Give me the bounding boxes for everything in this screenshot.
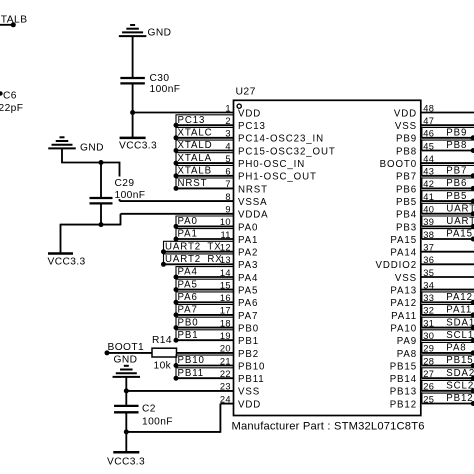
svg-text:PB13: PB13 bbox=[390, 387, 417, 398]
svg-text:PA6: PA6 bbox=[238, 298, 258, 309]
pin 42 PB6 (right) bbox=[396, 178, 474, 195]
svg-text:GND: GND bbox=[148, 27, 172, 38]
svg-text:100nF: 100nF bbox=[142, 417, 173, 428]
wire C2 bottom node to pin 24 VDD bbox=[126, 431, 220, 433]
svg-text:PA2: PA2 bbox=[238, 248, 258, 259]
ground GND (top, above C30) bbox=[119, 25, 171, 38]
pin 23 VSS (left) bbox=[220, 382, 260, 398]
svg-text:VSSA: VSSA bbox=[238, 197, 267, 208]
op: IC U27 STM32L071C8T6 body bbox=[234, 87, 421, 416]
pin 24 VDD (left) bbox=[220, 394, 261, 410]
svg-text:VSS: VSS bbox=[395, 273, 417, 284]
svg-text:UART1_RX: UART1_RX bbox=[446, 216, 474, 227]
wire VCC node to pin 1 VDD bbox=[133, 112, 234, 114]
wire GND3 down to pin23 node bbox=[125, 377, 127, 391]
node GND3/C2/pin23 junction bbox=[124, 388, 129, 393]
svg-text:C6: C6 bbox=[3, 91, 17, 102]
svg-text:PB15: PB15 bbox=[446, 355, 473, 366]
pin 6 PH1-OSC_OUT (left) bbox=[174, 165, 317, 182]
svg-text:PB1: PB1 bbox=[178, 330, 199, 341]
pin 33 PA12 (right) bbox=[390, 292, 474, 309]
capacitor C29 100nF bbox=[90, 163, 148, 225]
svg-text:PB15: PB15 bbox=[390, 361, 417, 372]
resistor R14 10k bbox=[152, 335, 177, 372]
svg-text:NRST: NRST bbox=[238, 184, 268, 195]
svg-text:PB0: PB0 bbox=[178, 317, 199, 328]
pin 25 PB12 (right) bbox=[390, 393, 474, 410]
svg-text:PB9: PB9 bbox=[396, 134, 417, 145]
svg-text:PC14-OSC23_IN: PC14-OSC23_IN bbox=[238, 134, 324, 145]
svg-text:PB0: PB0 bbox=[238, 324, 259, 335]
svg-text:PB9: PB9 bbox=[446, 128, 467, 139]
node C2 bottom / VCC junction bbox=[124, 429, 129, 434]
power VCC3.3 (bottom) bbox=[107, 452, 145, 467]
svg-text:PB5: PB5 bbox=[446, 191, 467, 202]
svg-text:PA4: PA4 bbox=[178, 267, 198, 278]
svg-text:VSS: VSS bbox=[395, 121, 417, 132]
svg-text:1: 1 bbox=[225, 103, 230, 113]
svg-text:PA0: PA0 bbox=[238, 222, 258, 233]
svg-text:GND: GND bbox=[114, 354, 138, 365]
svg-text:100nF: 100nF bbox=[150, 84, 181, 95]
capacitor C6 value labels (cropped at left edge) bbox=[0, 91, 23, 115]
wire GND to C30 top bbox=[132, 36, 134, 77]
svg-text:PB12: PB12 bbox=[446, 393, 473, 404]
svg-text:XTALD: XTALD bbox=[178, 140, 213, 151]
svg-text:PA9: PA9 bbox=[397, 336, 417, 347]
wire C29 bottom node to VCC3.3 (mid) bbox=[61, 224, 102, 226]
svg-text:UART2_TX: UART2_TX bbox=[165, 241, 222, 252]
svg-text:20: 20 bbox=[220, 344, 231, 354]
pin 17 PA7 (left) bbox=[174, 305, 259, 322]
svg-text:PB8: PB8 bbox=[396, 146, 417, 157]
node C29 bottom junction bbox=[99, 222, 104, 227]
svg-text:PA8: PA8 bbox=[397, 349, 417, 360]
svg-text:PB10: PB10 bbox=[178, 355, 205, 366]
wire C2 bottom node down to VCC3.3 bbox=[125, 432, 127, 452]
svg-text:PH1-OSC_OUT: PH1-OSC_OUT bbox=[238, 172, 317, 183]
svg-text:PA3: PA3 bbox=[238, 260, 258, 271]
svg-text:PA0: PA0 bbox=[178, 216, 198, 227]
svg-text:PB5: PB5 bbox=[396, 197, 417, 208]
pin 31 PA10 (right) bbox=[390, 317, 474, 334]
svg-text:SCL1: SCL1 bbox=[446, 330, 474, 341]
svg-text:24: 24 bbox=[220, 394, 231, 404]
svg-text:PB4: PB4 bbox=[396, 210, 417, 221]
pin 44 BOOT0 (right) bbox=[380, 154, 474, 170]
pin 28 PB15 (right) bbox=[390, 355, 474, 372]
svg-text:VCC3.3: VCC3.3 bbox=[48, 256, 86, 267]
pin 41 PB5 (right) bbox=[396, 191, 474, 208]
ground GND (mid-left, above C29) bbox=[48, 137, 104, 153]
svg-text:PA13: PA13 bbox=[390, 286, 417, 297]
svg-text:100nF: 100nF bbox=[115, 190, 146, 201]
svg-text:PA10: PA10 bbox=[390, 324, 417, 335]
pin 35 VSS (right) bbox=[395, 268, 474, 284]
svg-text:GND: GND bbox=[80, 143, 104, 154]
svg-text:PA7: PA7 bbox=[238, 311, 258, 322]
svg-text:PB7: PB7 bbox=[396, 172, 417, 183]
pin 10 PA0 (left) bbox=[174, 216, 259, 233]
svg-text:VDD: VDD bbox=[238, 108, 261, 119]
wire C30 bottom to VCC node bbox=[132, 85, 134, 113]
wire R14 to pin 20 PB2 bbox=[177, 352, 234, 354]
svg-text:PA1: PA1 bbox=[238, 235, 258, 246]
svg-text:VSS: VSS bbox=[238, 387, 260, 398]
pin 32 PA11 (right) bbox=[391, 305, 474, 322]
svg-text:PB3: PB3 bbox=[396, 222, 417, 233]
pin 8 VSSA (left) bbox=[225, 192, 267, 208]
svg-text:PB8: PB8 bbox=[446, 140, 467, 151]
svg-text:C30: C30 bbox=[150, 73, 170, 84]
pin 34 PA13 (right) bbox=[390, 280, 474, 296]
svg-text:VDD: VDD bbox=[238, 399, 261, 410]
pin 36 VDDIO2 (right) bbox=[376, 255, 474, 271]
svg-text:R14: R14 bbox=[152, 335, 172, 346]
pin 16 PA6 (left) bbox=[174, 292, 259, 309]
svg-text:PA15: PA15 bbox=[446, 229, 473, 240]
svg-text:PB10: PB10 bbox=[238, 361, 265, 372]
svg-text:9: 9 bbox=[225, 205, 230, 215]
pin 27 PB14 (right) bbox=[390, 368, 474, 385]
svg-text:C29: C29 bbox=[115, 178, 135, 189]
pin 22 PB11 (left) bbox=[174, 368, 265, 385]
wire C29 top node to pin 8 VSSA bbox=[119, 162, 121, 201]
capacitor C2 100nF bbox=[114, 391, 173, 432]
svg-text:PA7: PA7 bbox=[178, 305, 198, 316]
svg-text:PA5: PA5 bbox=[238, 286, 258, 297]
power VCC3.3 (mid-left) bbox=[48, 254, 86, 268]
pin 46 PB9 (right) bbox=[396, 127, 474, 144]
svg-text:SDA1: SDA1 bbox=[446, 317, 474, 328]
svg-text:PH0-OSC_IN: PH0-OSC_IN bbox=[238, 159, 305, 170]
svg-text:PB11: PB11 bbox=[178, 368, 205, 379]
svg-text:UART2_RX: UART2_RX bbox=[165, 254, 223, 265]
pin 3 PC14-OSC23_IN (left) bbox=[174, 127, 325, 144]
svg-text:C2: C2 bbox=[142, 404, 156, 415]
node C29 top junction bbox=[99, 160, 104, 165]
svg-text:PA11: PA11 bbox=[446, 305, 472, 316]
svg-text:XTALB: XTALB bbox=[178, 166, 212, 177]
pin 11 PA1 (left) bbox=[174, 229, 259, 246]
capacitor C30 100nF bbox=[120, 73, 180, 95]
svg-text:22pF: 22pF bbox=[0, 103, 23, 114]
svg-text:SDA2: SDA2 bbox=[446, 368, 474, 379]
svg-text:PB6: PB6 bbox=[446, 178, 467, 189]
svg-text:PB12: PB12 bbox=[390, 399, 417, 410]
pin 1 VDD (left) bbox=[225, 103, 261, 119]
pin 47 VSS (right) bbox=[395, 116, 474, 132]
node VCC3.3 / pin1 junction bbox=[130, 110, 135, 115]
svg-text:BOOT1: BOOT1 bbox=[108, 342, 145, 353]
wire VCC node down to VCC3.3 symbol bbox=[132, 113, 134, 138]
power VCC3.3 (top) bbox=[119, 138, 157, 151]
svg-text:23: 23 bbox=[220, 382, 231, 392]
svg-text:XTALC: XTALC bbox=[178, 128, 213, 139]
svg-text:PA8: PA8 bbox=[446, 343, 466, 354]
svg-text:NRST: NRST bbox=[178, 178, 208, 189]
svg-text:PA12: PA12 bbox=[446, 292, 473, 303]
svg-text:VCC3.3: VCC3.3 bbox=[107, 456, 145, 467]
svg-text:PC15-OSC32_OUT: PC15-OSC32_OUT bbox=[238, 146, 336, 157]
svg-text:PA12: PA12 bbox=[390, 298, 417, 309]
pin 2 PC13 (left) bbox=[174, 115, 266, 132]
svg-text:PC13: PC13 bbox=[238, 121, 266, 132]
pin 29 PA8 (right) bbox=[397, 343, 474, 360]
svg-text:XTALA: XTALA bbox=[178, 153, 212, 164]
pin 40 PB4 (right) bbox=[396, 203, 474, 220]
svg-text:PC13: PC13 bbox=[178, 115, 206, 126]
wire C29 bottom node to pin 9 VDDA bbox=[101, 224, 121, 226]
svg-text:8: 8 bbox=[225, 192, 230, 202]
pin 18 PB0 (left) bbox=[174, 317, 260, 334]
svg-text:PA14: PA14 bbox=[390, 248, 417, 259]
svg-text:VCC3.3: VCC3.3 bbox=[119, 140, 157, 151]
pin 20 PB2 (left) bbox=[220, 344, 259, 360]
pin 43 PB7 (right) bbox=[396, 165, 474, 182]
pin 9 VDDA (left) bbox=[225, 205, 268, 221]
svg-text:VDD: VDD bbox=[394, 108, 417, 119]
svg-text:PA1: PA1 bbox=[178, 229, 198, 240]
svg-text:PB6: PB6 bbox=[396, 184, 417, 195]
pin 5 PH0-OSC_IN (left) bbox=[174, 153, 306, 170]
pin 30 PA9 (right) bbox=[397, 330, 474, 347]
svg-text:PA15: PA15 bbox=[390, 235, 417, 246]
svg-text:PA11: PA11 bbox=[391, 311, 417, 322]
svg-text:BOOT0: BOOT0 bbox=[380, 159, 417, 170]
svg-text:VDDA: VDDA bbox=[238, 210, 269, 221]
svg-text:PB2: PB2 bbox=[238, 349, 259, 360]
svg-text:U27: U27 bbox=[236, 87, 256, 98]
pin 39 PB3 (right) bbox=[396, 216, 474, 233]
svg-text:PB1: PB1 bbox=[238, 336, 259, 347]
pin 26 PB13 (right) bbox=[390, 380, 474, 397]
pin 14 PA4 (left) bbox=[174, 267, 259, 284]
svg-text:PB14: PB14 bbox=[390, 374, 417, 385]
pin 7 NRST (left) bbox=[174, 178, 268, 195]
wire GND down and right to C29 top node bbox=[61, 148, 63, 162]
svg-text:Manufacturer Part : STM32L071C: Manufacturer Part : STM32L071C8T6 bbox=[232, 420, 425, 432]
pin 38 PA15 (right) bbox=[390, 229, 474, 246]
net label XTALB (cropped at left edge) bbox=[0, 14, 28, 27]
pin 15 PA5 (left) bbox=[174, 279, 259, 296]
pin 48 VDD (right) bbox=[394, 103, 474, 119]
pin 13 PA3 (left) bbox=[161, 254, 258, 271]
svg-text:PA6: PA6 bbox=[178, 292, 198, 303]
svg-text:PB11: PB11 bbox=[238, 374, 265, 385]
pin 21 PB10 (left) bbox=[174, 355, 266, 372]
svg-text:PB7: PB7 bbox=[446, 166, 467, 177]
wire node to pin 23 VSS bbox=[126, 390, 233, 392]
svg-text:UART1_TX: UART1_TX bbox=[446, 203, 474, 214]
pin 45 PB8 (right) bbox=[396, 140, 474, 157]
net label BOOT1 bbox=[105, 342, 153, 355]
pin 4 PC15-OSC32_OUT (left) bbox=[174, 140, 336, 157]
ground GND (above C2, BOOT1 area) bbox=[113, 354, 141, 377]
svg-text:10k: 10k bbox=[154, 361, 172, 372]
svg-text:PA5: PA5 bbox=[178, 279, 198, 290]
pin 37 PA14 (right) bbox=[390, 243, 474, 259]
svg-text:PA4: PA4 bbox=[238, 273, 258, 284]
svg-text:SCL2: SCL2 bbox=[446, 381, 474, 392]
svg-text:VDDIO2: VDDIO2 bbox=[376, 260, 417, 271]
pin 12 PA2 (left) bbox=[161, 241, 258, 258]
pin 19 PB1 (left) bbox=[174, 330, 260, 347]
